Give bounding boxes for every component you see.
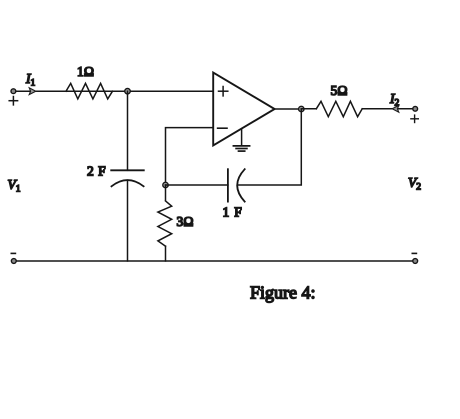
capacitor C2 1F left plate <box>227 169 229 201</box>
plus sign right output <box>411 115 418 122</box>
resistor R1 1ohm <box>66 83 113 99</box>
op-amp minus input marking <box>218 127 227 129</box>
svg-text:1 F: 1 F <box>223 205 243 220</box>
wire resistor R3 to bottom rail <box>165 246 167 261</box>
wire op-amp output to node B <box>275 108 302 110</box>
terminal right bottom <box>413 259 418 264</box>
wire node to op-amp + input <box>128 90 213 92</box>
current arrow I2 <box>392 105 399 112</box>
node C feedback junction <box>163 182 169 188</box>
svg-text:1Ω: 1Ω <box>77 64 94 79</box>
svg-text:I2: I2 <box>389 91 400 109</box>
wire node C to capacitor C2 <box>166 184 228 186</box>
ground stub wire <box>241 129 243 146</box>
resistor R2 5ohm <box>316 101 362 116</box>
terminal left top <box>11 89 16 94</box>
plus sign left input <box>9 97 17 105</box>
op-amp U1 <box>213 73 274 146</box>
node A junction <box>125 88 131 94</box>
wire resistor R2 to right terminal <box>362 108 413 110</box>
bottom rail wire <box>16 260 414 262</box>
terminal left bottom <box>11 259 16 264</box>
svg-text:2 F: 2 F <box>87 164 106 179</box>
svg-text:V1: V1 <box>8 177 21 195</box>
resistor R3 3ohm <box>158 201 172 246</box>
capacitor C1 2F curved plate <box>112 180 144 186</box>
svg-text:V2: V2 <box>408 175 421 193</box>
wire capacitor C2 to feedback corner <box>239 109 302 185</box>
wire node B to resistor R2 <box>301 108 316 110</box>
capacitor C2 1F curved plate <box>237 169 245 201</box>
op-amp plus input marking <box>219 87 228 96</box>
current arrow I1 <box>29 88 36 95</box>
capacitor C1 2F top plate <box>111 169 144 171</box>
svg-text:I1: I1 <box>25 71 36 89</box>
svg-text:5Ω: 5Ω <box>331 83 348 98</box>
wire minus input to feedback corner <box>166 128 213 185</box>
node B output junction <box>299 106 305 112</box>
minus sign right bottom <box>412 252 416 254</box>
minus sign left bottom <box>11 252 15 254</box>
terminal right top <box>413 106 418 111</box>
wire resistor to node <box>113 90 128 92</box>
wire top rail left: terminal to node <box>16 90 128 92</box>
wire node C to resistor R3 <box>165 185 167 200</box>
wire capacitor C1 to bottom rail <box>127 180 129 261</box>
svg-text:Figure 4:: Figure 4: <box>250 283 316 303</box>
wire node down to capacitor C1 <box>127 91 129 170</box>
svg-text:3Ω: 3Ω <box>177 214 194 229</box>
ground symbol <box>233 146 249 151</box>
